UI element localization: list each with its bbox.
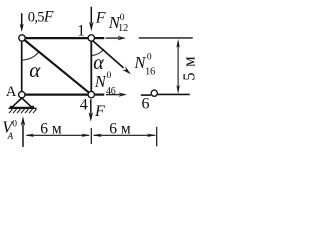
member diagonal (top-left node to node 4): [22, 38, 91, 95]
pin support left foot: [10, 106, 13, 109]
svg-text:12: 12: [118, 23, 128, 34]
svg-text:α: α: [29, 58, 41, 82]
svg-text:0: 0: [107, 71, 112, 81]
svg-text:α: α: [93, 52, 104, 74]
svg-text:0: 0: [120, 13, 125, 23]
svg-text:A: A: [7, 131, 14, 141]
node top-left: [19, 35, 25, 41]
svg-text:4: 4: [80, 97, 88, 114]
svg-text:F: F: [94, 103, 105, 120]
extension line top right for 5m dimension: [139, 37, 193, 39]
dimension 6m left segment line: [25, 134, 90, 137]
svg-text:0,5F: 0,5F: [28, 9, 54, 26]
dimension tick below node 4: [90, 128, 92, 144]
svg-text:5 м: 5 м: [180, 56, 199, 81]
angle arc alpha at top-left node: [22, 52, 39, 60]
node A: [19, 92, 25, 98]
bottom chord right of node 6: [158, 93, 190, 95]
svg-text:46: 46: [106, 86, 116, 97]
reaction V_A arrow below support: [21, 116, 25, 147]
angle arc alpha at node 1: [91, 49, 104, 55]
member vertical 1-4: [90, 38, 92, 95]
node 4: [88, 91, 94, 97]
dimension 6m right segment line: [93, 134, 156, 137]
stub of cut member 4-6 right of node 4: [95, 93, 104, 95]
force 0,5F arrow at top-left node: [20, 13, 24, 32]
member left vertical (top-left node to node A): [21, 38, 23, 95]
force N12 arrow at node 1: [106, 36, 127, 40]
pin support hatching: [9, 109, 37, 113]
svg-text:1: 1: [77, 22, 85, 39]
svg-text:6: 6: [142, 95, 150, 112]
node 6: [151, 90, 157, 96]
force F arrow at node 1: [89, 7, 93, 32]
svg-text:F: F: [95, 9, 106, 26]
svg-text:N: N: [94, 72, 107, 91]
node 1: [88, 35, 94, 41]
svg-text:16: 16: [145, 67, 155, 78]
stub of bottom chord left of node 6: [141, 94, 151, 96]
force N46 arrow at node 4: [106, 92, 127, 96]
pin support ground line: [9, 107, 37, 109]
force N16 arrow from node 1 (cut diagonal 1-6): [93, 41, 131, 74]
svg-text:А: А: [6, 84, 17, 100]
force F arrow at node 4: [89, 99, 93, 122]
dimension 5m vertical line: [176, 39, 179, 94]
member bottom chord A-4: [22, 93, 91, 95]
stub of cut member 1-2 right of node 1: [94, 37, 104, 39]
svg-text:0: 0: [147, 53, 152, 63]
pin support at A: triangle: [12, 98, 32, 108]
svg-text:0: 0: [12, 119, 17, 129]
member top chord (top-left node to node 1): [22, 37, 92, 39]
svg-text:6 м: 6 м: [109, 121, 131, 138]
pin support right foot: [31, 106, 34, 109]
svg-text:6 м: 6 м: [40, 121, 62, 138]
dimension tick below node 6: [156, 127, 158, 147]
